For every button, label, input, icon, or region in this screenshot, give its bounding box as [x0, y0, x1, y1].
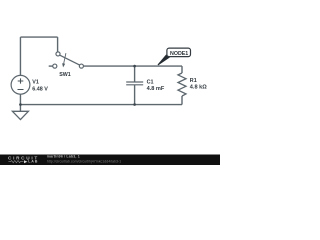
wire: ground stem [19, 105, 21, 112]
junction: top capacitor tap [133, 65, 136, 68]
ground [12, 111, 28, 119]
svg-text:R1: R1 [190, 78, 197, 84]
wire: capacitor bottom lead [134, 85, 136, 105]
wire: resistor branch top lead [181, 66, 183, 73]
resistor R1 [178, 73, 186, 96]
svg-text:SW1: SW1 [59, 72, 71, 78]
svg-text:4.8 mF: 4.8 mF [147, 86, 165, 92]
svg-text:4.8 kΩ: 4.8 kΩ [190, 84, 207, 90]
junction: bottom capacitor tap [133, 103, 136, 106]
wire: capacitor top lead [134, 66, 136, 82]
node NODE1 flag box [167, 48, 191, 57]
wire: V1 top lead up left side [19, 37, 21, 75]
wire: switch output to resistor corner [84, 65, 183, 67]
svg-text:C1: C1 [147, 80, 154, 86]
svg-text:6.48 V: 6.48 V [32, 86, 48, 92]
voltage source V1 [11, 75, 30, 94]
svg-text:http://circuitlab.com/circuit/: http://circuitlab.com/circuit/hj47mkc1dd… [47, 160, 121, 164]
wire: resistor bottom lead [181, 96, 183, 105]
switch SW1 [49, 52, 84, 68]
junction: V1/ground tap [19, 103, 22, 106]
svg-text:LAB: LAB [28, 160, 38, 164]
footer logo zigzag [8, 161, 23, 163]
capacitor C1 [126, 82, 143, 85]
wire: down to switch top terminal [57, 37, 59, 52]
wire: top-left horizontal [20, 36, 57, 38]
node NODE1 flag tail [158, 55, 169, 65]
wire: V1 bottom lead [19, 94, 21, 104]
svg-text:V1: V1 [32, 80, 39, 86]
svg-text:NODE1: NODE1 [170, 51, 188, 57]
footer bar [0, 155, 220, 166]
svg-text:martin96 / Lab3, 1: martin96 / Lab3, 1 [47, 155, 80, 159]
footer logo arrow [24, 160, 27, 163]
wire: bottom horizontal [20, 104, 182, 106]
